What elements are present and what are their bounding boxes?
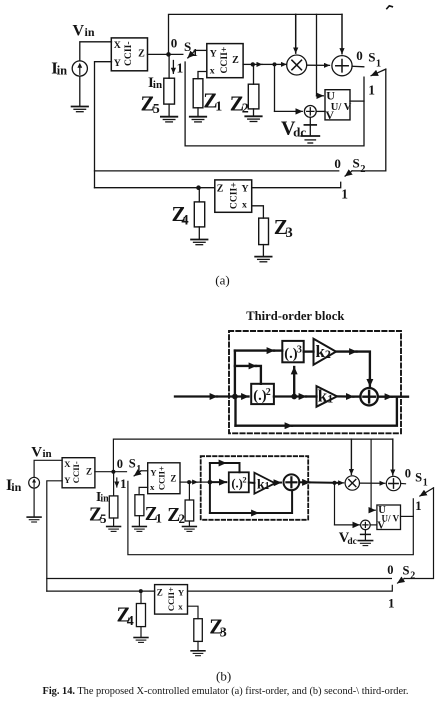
- svg-text:0: 0: [387, 563, 393, 577]
- svg-text:1: 1: [177, 60, 184, 75]
- node dot to Z2: [251, 62, 255, 66]
- svg-text:0: 0: [334, 156, 341, 171]
- wire Z1 to ground: [197, 108, 199, 117]
- wire S1 position1 loop to U/V output: [185, 62, 364, 146]
- wire S2 position1 Z-side line (b): [47, 590, 155, 592]
- wire second tap into squarer top: [235, 365, 256, 367]
- wire input into squarer (b block): [210, 481, 226, 483]
- U/V divider block: [325, 90, 350, 120]
- node dot Z4 tap (b): [139, 589, 143, 593]
- svg-text:in: in: [85, 25, 95, 39]
- battery and ground under Vdc: [309, 117, 311, 125]
- wire top rail down into adder (b): [392, 439, 394, 475]
- ground under Z5: [161, 117, 177, 122]
- svg-text:(b): (b): [216, 668, 231, 683]
- op-amp block U5 CCII+ box: [148, 463, 180, 494]
- wire Z output of U1: [148, 53, 183, 55]
- ground under Z3: [255, 257, 271, 262]
- wire U input from top rail to U/V block: [316, 14, 318, 95]
- svg-text:0: 0: [117, 457, 123, 471]
- svg-text:U: U: [326, 89, 335, 103]
- switch S2 arm: [345, 171, 352, 176]
- adder circle (b block): [284, 474, 300, 490]
- svg-text:Y: Y: [64, 475, 71, 485]
- resistor Z5: [164, 78, 175, 104]
- svg-text:0: 0: [356, 48, 363, 63]
- wire source to ground: [79, 76, 81, 106]
- svg-text:(.): (.): [231, 477, 242, 491]
- resistor Z1: [193, 79, 203, 108]
- resistor Z4 (b): [136, 604, 145, 627]
- svg-text:(a): (a): [215, 272, 229, 287]
- svg-text:S: S: [353, 156, 360, 171]
- wire down to Z4: [198, 188, 200, 202]
- wire multiplier to adder: [307, 64, 330, 66]
- wire S2 position1 line (Z side): [95, 187, 215, 189]
- wire junction down to Z5: [168, 54, 170, 78]
- wire Z output of U5 into first-order block: [180, 481, 189, 483]
- svg-text:S: S: [129, 456, 136, 470]
- svg-text:2: 2: [179, 511, 186, 526]
- svg-text:in: in: [57, 63, 67, 77]
- svg-text:1: 1: [376, 59, 381, 70]
- switch S2 arm (b): [398, 579, 405, 584]
- node dot after squarer: [291, 394, 297, 400]
- svg-text:Third-order block: Third-order block: [246, 309, 344, 323]
- svg-text:V: V: [73, 22, 85, 39]
- ground under Z1 (b): [133, 527, 147, 532]
- svg-text:2: 2: [410, 571, 415, 582]
- svg-text:Z: Z: [217, 184, 224, 195]
- svg-text:dc: dc: [347, 537, 357, 547]
- svg-text:1: 1: [341, 186, 348, 201]
- ground under Z2 (b): [183, 527, 197, 532]
- wire Vin node to X of U1: [80, 42, 112, 61]
- svg-text:S: S: [403, 564, 410, 578]
- wire X of U5 to Z1 (b): [139, 487, 148, 494]
- svg-text:V: V: [377, 520, 385, 531]
- svg-text:(.): (.): [284, 346, 297, 362]
- svg-text:in: in: [43, 448, 52, 460]
- wire Vdc tap down from node: [274, 64, 276, 111]
- wire down to Z4 (b): [140, 591, 142, 603]
- svg-text:Y: Y: [178, 587, 185, 597]
- svg-text:1: 1: [136, 464, 141, 475]
- wire Z5 to ground: [168, 104, 170, 116]
- svg-text:CCII-: CCII-: [71, 461, 81, 483]
- wire down to Z2: [253, 64, 255, 84]
- wire top rail down into adder: [341, 14, 343, 53]
- wire feedthrough bottom path: [234, 397, 236, 426]
- svg-text:CCII-: CCII-: [123, 41, 134, 66]
- wire multiplier to adder (b): [360, 482, 385, 484]
- node Z1out junction dot: [166, 52, 171, 57]
- wire top rail down into multiplier: [295, 14, 297, 53]
- wire down to Z2 (b): [188, 482, 190, 500]
- svg-text:S: S: [368, 49, 375, 64]
- dashed box first-order block: [201, 456, 309, 520]
- wire Z2 to ground: [253, 109, 255, 116]
- dashed box third-order block: [229, 331, 401, 433]
- svg-text:4: 4: [127, 614, 134, 629]
- resistor Z3 (b): [194, 619, 203, 642]
- svg-text:1: 1: [423, 477, 428, 488]
- multiplier circle (b): [345, 476, 359, 490]
- svg-text:1: 1: [156, 510, 163, 525]
- cube block (.)^3: [282, 341, 303, 362]
- wire U input tap (b): [370, 439, 372, 510]
- op-amp block U1 CCII- box: [111, 38, 147, 71]
- svg-text:1: 1: [415, 498, 422, 513]
- svg-text:3: 3: [297, 344, 302, 355]
- wire Y input of U2: [195, 49, 207, 51]
- wire feedthrough bottom (b block): [209, 482, 211, 513]
- ground under Z5 (b): [107, 527, 121, 532]
- svg-text:dc: dc: [293, 125, 306, 140]
- wire adder output to S1 pos0 contact (b): [401, 483, 406, 485]
- ground under Z3 (b): [191, 651, 205, 656]
- svg-text:CCII+: CCII+: [166, 587, 176, 611]
- Vdc source circle (b): [361, 520, 371, 530]
- wire S1 pole down to S2 pole (b): [404, 488, 433, 579]
- wire X of U2 to Z1: [198, 72, 207, 79]
- wire S1 pole down to S2 pole: [352, 69, 386, 171]
- wire S2 position0 line back to Y bus: [95, 170, 339, 172]
- svg-text:3: 3: [286, 225, 293, 241]
- svg-text:Z: Z: [86, 467, 92, 477]
- resistor Z2: [248, 84, 259, 109]
- wire Z2 to ground (b): [188, 521, 190, 526]
- wire Z output of U4: [95, 471, 127, 473]
- node input junction (b block): [208, 480, 213, 485]
- svg-text:Y: Y: [114, 58, 121, 69]
- svg-text:4: 4: [181, 213, 188, 229]
- current arrow Iin into Z5 (b): [116, 478, 118, 487]
- svg-text:1: 1: [327, 392, 333, 406]
- svg-text:in: in: [11, 480, 21, 494]
- svg-text:x: x: [242, 200, 247, 211]
- op-amp block U6 CCII+ box (b): [155, 585, 188, 615]
- svg-text:1: 1: [388, 596, 395, 611]
- svg-text:5: 5: [100, 511, 107, 526]
- switch S1 right arm (b): [420, 488, 434, 496]
- wire Z1 to ground (b): [138, 516, 140, 527]
- svg-text:0: 0: [171, 35, 178, 50]
- wire top tap into squarer top (b block): [209, 463, 211, 482]
- svg-text:CCII+: CCII+: [228, 182, 239, 209]
- wire adder output stub: [378, 396, 392, 398]
- svg-text:Z: Z: [157, 588, 163, 598]
- wire Y of U6 to S2 pos1 contact with tick (b): [188, 585, 393, 591]
- svg-text:X: X: [64, 459, 71, 469]
- wire k1 to adder: [337, 395, 353, 398]
- svg-text:in: in: [153, 79, 162, 91]
- wire into multiplier (b): [335, 482, 344, 484]
- svg-text:X: X: [114, 40, 121, 51]
- ground under Z4: [191, 240, 207, 245]
- svg-text:1: 1: [368, 82, 375, 97]
- resistor Z2 (b): [185, 500, 194, 521]
- svg-text:1: 1: [120, 476, 127, 491]
- svg-text:V: V: [325, 108, 334, 122]
- amplifier k2 triangle: [314, 339, 337, 365]
- wire X of U3 to Z3: [252, 206, 264, 218]
- first-order inner dashed block (b): [201, 456, 340, 520]
- wire Z5 to ground (b): [113, 518, 115, 526]
- wire Z4 to ground: [198, 227, 200, 239]
- wire S1 position1 loop (b): [128, 481, 413, 554]
- svg-text:5: 5: [153, 102, 160, 117]
- wire squarer output to k1: [274, 395, 306, 397]
- svg-text:x: x: [150, 482, 155, 492]
- svg-text:V: V: [31, 444, 42, 460]
- wire Vdc to V input: [316, 110, 325, 112]
- svg-text:CCII+: CCII+: [219, 47, 230, 74]
- amplifier k1 triangle: [317, 386, 338, 407]
- node dot Z4 tap: [196, 185, 201, 190]
- wire top rail down into multiplier (b): [350, 439, 352, 474]
- adder circle (a): [332, 56, 352, 76]
- current source Iin (b): [29, 477, 40, 488]
- ground under Z1: [190, 117, 206, 122]
- wire U/V output to S1 pos1 (b): [401, 515, 414, 517]
- svg-text:1: 1: [215, 99, 222, 114]
- switch S1 left arm: [188, 50, 196, 58]
- svg-text:3: 3: [220, 626, 227, 641]
- adder circle third-order block: [360, 388, 377, 405]
- wire source to ground (b): [33, 488, 35, 517]
- op-amp block U3 CCII+ box: [215, 180, 252, 212]
- node dot to Z2 (b): [187, 480, 191, 484]
- wire input up to cube tap: [234, 351, 236, 397]
- wire X of U6 to Z3 (b): [188, 606, 199, 619]
- wire Y input of U5: [141, 470, 148, 472]
- wire k1 to adder (b block): [275, 482, 281, 484]
- Vdc source circle: [304, 106, 316, 118]
- wire cube to k2: [304, 350, 314, 352]
- svg-text:1: 1: [193, 48, 198, 59]
- svg-text:in: in: [100, 494, 109, 505]
- wire junction up to top rail (b): [113, 439, 392, 472]
- wire Vdc to V input (b): [370, 524, 377, 526]
- wire Vdc tap down (b): [334, 483, 336, 525]
- op-amp block U4 CCII- box: [62, 458, 95, 488]
- switch S1 left arm (b): [134, 471, 141, 476]
- resistor Z1 (b): [135, 495, 144, 516]
- switch S1 right arm: [371, 69, 386, 76]
- wire junction down to Z5 (b): [113, 472, 115, 496]
- op-amp block U2 CCII+ box: [207, 44, 243, 78]
- adder circle (b): [386, 476, 400, 490]
- wire squared signal up into cube bottom: [293, 367, 295, 397]
- svg-text:2: 2: [360, 164, 365, 175]
- node dot Vdc tap (b): [332, 481, 336, 485]
- wire S2 position0 line (b): [47, 578, 392, 580]
- svg-text:S: S: [184, 39, 191, 54]
- ground under Z2: [245, 116, 261, 121]
- resistor Z5 (b): [109, 496, 118, 518]
- wire adder output to S1 pos0 contact: [352, 65, 364, 68]
- svg-text:Y: Y: [210, 49, 217, 60]
- squarer block (.)^2 (b block): [229, 472, 249, 492]
- svg-text:2: 2: [242, 102, 249, 117]
- svg-text:x: x: [210, 66, 215, 77]
- wire U/V output to S1 pos1 line: [350, 100, 364, 102]
- wire squarer to k1 (b block): [249, 482, 255, 484]
- wire Z output of U2 to multiplier: [243, 63, 253, 65]
- wire input stub: [175, 395, 217, 397]
- current arrow Iin into Z5: [172, 61, 174, 74]
- svg-text:Z: Z: [232, 55, 239, 66]
- node junction dot (b): [111, 470, 115, 474]
- svg-text:2: 2: [325, 347, 331, 361]
- svg-text:Z: Z: [138, 49, 145, 60]
- wire adder output exits block (b): [299, 481, 309, 483]
- multiplier circle (a): [287, 55, 307, 75]
- svg-text:CCII+: CCII+: [157, 466, 167, 490]
- svg-text:2: 2: [242, 475, 246, 485]
- svg-text:Z: Z: [170, 474, 176, 484]
- svg-text:0: 0: [405, 467, 411, 481]
- battery and ground under Vdc (b): [364, 530, 366, 535]
- stray mark top right: [387, 6, 393, 9]
- U/V divider block (b): [377, 505, 401, 530]
- svg-text:Y: Y: [242, 184, 249, 195]
- ground under source (b): [27, 517, 41, 522]
- wire Vin node to X of U4: [34, 460, 62, 477]
- svg-text:Fig. 14. The proposed X-contro: Fig. 14. The proposed X-controlled emula…: [43, 686, 409, 697]
- squarer block (.)^2: [251, 384, 274, 404]
- current source Iin: [72, 61, 87, 76]
- node dot to Vdc adder: [273, 62, 277, 66]
- wire Z3 to ground: [262, 245, 264, 257]
- resistor Z4: [194, 202, 204, 227]
- wire input into squarer: [243, 395, 249, 397]
- wire Z4 to ground (b): [140, 627, 142, 638]
- wire Y of U3 to S2 pos1 contact with tick: [252, 182, 341, 187]
- wire k2 output down into adder top: [336, 350, 357, 352]
- svg-text:2: 2: [266, 387, 271, 398]
- wire junction up to top rail: [169, 14, 343, 54]
- wire Y of U1 down to feedback bus: [95, 62, 112, 188]
- amplifier k1 triangle (b block): [254, 473, 275, 494]
- ground under Z4 (b): [134, 638, 148, 643]
- svg-text:x: x: [178, 601, 183, 611]
- ground under source: [72, 107, 88, 112]
- svg-text:1: 1: [265, 481, 270, 492]
- node input junction: [232, 394, 238, 400]
- svg-text:S: S: [415, 470, 422, 484]
- wire Z3 to ground (b): [197, 641, 199, 650]
- resistor Z3: [259, 218, 269, 245]
- wire Y of U4 down to feedback bus (b): [47, 481, 62, 591]
